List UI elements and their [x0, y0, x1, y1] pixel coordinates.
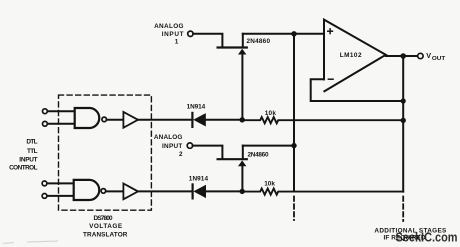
- svg-text:1N914: 1N914: [189, 176, 209, 183]
- svg-text:V: V: [426, 51, 431, 60]
- svg-text:INPUT: INPUT: [162, 31, 184, 38]
- svg-text:1: 1: [175, 38, 179, 45]
- svg-text:1N914: 1N914: [187, 104, 206, 111]
- svg-text:2N4860: 2N4860: [247, 38, 271, 45]
- svg-text:SeekIC.com: SeekIC.com: [396, 230, 458, 245]
- svg-text:10k: 10k: [265, 110, 277, 117]
- svg-text:2N4860: 2N4860: [248, 152, 269, 159]
- svg-text:CONTROL: CONTROL: [9, 165, 37, 172]
- svg-text:VOLTAGE: VOLTAGE: [89, 223, 123, 230]
- svg-text:OUT: OUT: [432, 56, 446, 62]
- svg-text:DTL: DTL: [26, 138, 37, 145]
- svg-text:ANALOG: ANALOG: [154, 134, 183, 141]
- svg-text:INPUT: INPUT: [19, 157, 37, 164]
- svg-text:TRANSLATOR: TRANSLATOR: [83, 232, 128, 239]
- svg-text:2: 2: [179, 151, 183, 158]
- svg-text:INPUT: INPUT: [162, 143, 182, 150]
- svg-text:ANALOG: ANALOG: [154, 23, 183, 30]
- svg-text:DS7800: DS7800: [94, 215, 114, 222]
- svg-text:10k: 10k: [264, 180, 275, 187]
- svg-text:TTL: TTL: [27, 148, 38, 155]
- svg-text:LM102: LM102: [340, 52, 362, 59]
